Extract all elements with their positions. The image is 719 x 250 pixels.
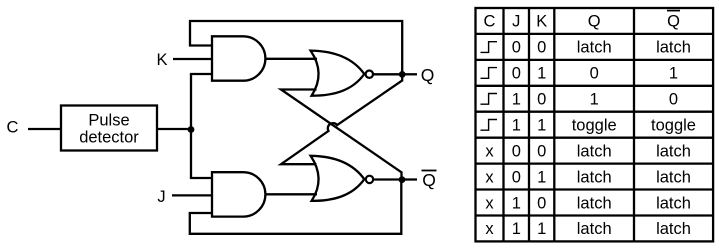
svg-text:Q: Q <box>422 170 436 190</box>
svg-text:latch: latch <box>656 220 691 238</box>
svg-text:1: 1 <box>669 65 678 83</box>
svg-text:latch: latch <box>577 220 612 238</box>
svg-text:1: 1 <box>537 65 546 83</box>
svg-text:Q: Q <box>667 12 680 30</box>
wire: clock vertical bus <box>190 74 192 178</box>
wire: cross feedback Q to G2 upper input (with hop) <box>281 75 402 164</box>
table row 3: rising edge, 1 0, 1 0 <box>481 91 679 109</box>
svg-text:K: K <box>536 12 547 30</box>
svg-text:0: 0 <box>537 194 546 212</box>
svg-text:C: C <box>484 12 496 30</box>
NOR gate G2 (bottom) <box>311 156 374 201</box>
node: clock junction <box>188 126 195 133</box>
svg-text:1: 1 <box>537 168 546 186</box>
label Q <box>421 65 435 85</box>
svg-text:toggle: toggle <box>572 117 617 135</box>
svg-text:latch: latch <box>656 142 691 160</box>
wire: A2 output to NOR G2 <box>265 193 317 195</box>
svg-text:J: J <box>157 188 165 206</box>
table row 4: rising edge, 1 1, toggle toggle <box>481 117 696 135</box>
svg-text:1: 1 <box>537 220 546 238</box>
table header row <box>484 11 681 31</box>
wire: clock to top AND input 3 <box>190 73 213 75</box>
svg-text:J: J <box>512 12 520 30</box>
svg-text:Pulse: Pulse <box>88 112 129 130</box>
label Qbar <box>422 170 437 190</box>
svg-text:0: 0 <box>512 65 521 83</box>
svg-text:x: x <box>485 194 494 212</box>
svg-text:x: x <box>485 142 494 160</box>
svg-text:toggle: toggle <box>651 117 696 135</box>
svg-text:x: x <box>485 220 494 238</box>
wire: pulse detector output to clock node <box>157 128 191 130</box>
table row 6: x, 0 1, latch latch <box>485 168 691 186</box>
svg-text:0: 0 <box>537 91 546 109</box>
wire: A1 output to NOR G1 <box>265 58 317 60</box>
svg-text:1: 1 <box>512 194 521 212</box>
table row 5: x, 0 0, latch latch <box>485 142 691 160</box>
svg-text:0: 0 <box>590 65 599 83</box>
svg-text:latch: latch <box>577 142 612 160</box>
svg-text:latch: latch <box>656 194 691 212</box>
svg-text:0: 0 <box>512 142 521 160</box>
wire: G1 output to node Q <box>373 73 403 75</box>
wire: Qbar feedback bottom rail <box>190 180 401 234</box>
svg-text:0: 0 <box>512 168 521 186</box>
wire: clock to bottom AND input 1 <box>190 177 213 179</box>
AND gate A2 (bottom) <box>212 172 265 216</box>
wire: bottom rail to bottom AND input 3 <box>189 212 213 214</box>
pulse detector block U1 <box>61 106 157 151</box>
svg-text:1: 1 <box>512 91 521 109</box>
label K <box>156 51 167 69</box>
AND gate A1 (top) <box>212 36 265 80</box>
svg-text:latch: latch <box>577 194 612 212</box>
node Q <box>399 71 406 78</box>
table row 8: x, 1 1, latch latch <box>485 220 691 238</box>
svg-text:x: x <box>485 168 494 186</box>
svg-text:Q: Q <box>421 65 435 85</box>
svg-text:0: 0 <box>512 39 521 57</box>
svg-text:latch: latch <box>577 39 612 57</box>
table row 1: rising edge, 0 0, latch latch <box>481 39 691 57</box>
node Qbar <box>399 176 406 183</box>
svg-text:latch: latch <box>577 168 612 186</box>
svg-text:1: 1 <box>590 91 599 109</box>
svg-text:1: 1 <box>512 220 521 238</box>
table row 2: rising edge, 0 1, 0 1 <box>481 65 679 83</box>
svg-text:0: 0 <box>537 142 546 160</box>
svg-text:K: K <box>156 51 167 69</box>
svg-text:detector: detector <box>79 129 139 147</box>
table row 7: x, 1 0, latch latch <box>485 194 691 212</box>
NOR gate G1 (top) <box>311 51 373 96</box>
label C (clock input) <box>7 118 19 136</box>
wire: Q feedback top rail <box>190 21 402 74</box>
wire: top rail to top AND input 1 <box>189 44 213 46</box>
svg-text:latch: latch <box>656 168 691 186</box>
label J <box>157 188 165 206</box>
wire: K input <box>173 58 213 60</box>
svg-text:0: 0 <box>669 91 678 109</box>
svg-text:1: 1 <box>537 117 546 135</box>
wire: Q output stub <box>402 73 417 75</box>
svg-text:0: 0 <box>537 39 546 57</box>
truth table grid <box>476 8 714 241</box>
svg-text:Q: Q <box>588 12 601 30</box>
wire: G2 output to node Qbar <box>373 178 403 180</box>
svg-text:C: C <box>7 118 19 136</box>
svg-text:latch: latch <box>656 39 691 57</box>
svg-text:1: 1 <box>512 117 521 135</box>
wire: J input <box>172 194 213 196</box>
wire: Qbar output stub <box>402 178 417 180</box>
wire: cross feedback Qbar to G1 lower input <box>281 90 402 181</box>
wire: C to pulse detector <box>28 128 61 130</box>
